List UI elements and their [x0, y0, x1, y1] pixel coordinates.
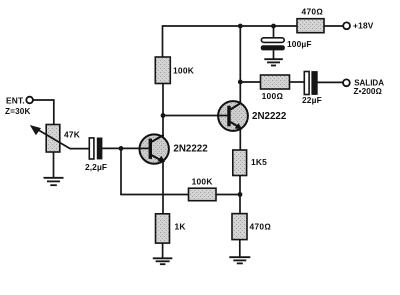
wire potentiometer to ground — [53, 152, 55, 178]
resistor 1K emitter — [156, 214, 186, 243]
resistor 100ohm output — [261, 75, 290, 101]
node output junction — [238, 80, 243, 85]
node emitter feedback junction — [238, 192, 243, 197]
resistor 100K feedback — [189, 176, 217, 200]
svg-text:100µF: 100µF — [287, 39, 312, 49]
wire Q1 base from capacitor — [102, 147, 149, 149]
wire top supply rail — [163, 25, 298, 27]
svg-text:22µF: 22µF — [302, 95, 322, 105]
svg-text:ENT.: ENT. — [6, 95, 25, 105]
wire 1K5 to emitter node — [239, 176, 241, 214]
wire feedback left vertical — [120, 148, 122, 195]
svg-text:2N2222: 2N2222 — [173, 144, 208, 155]
transistor Q1 2N2222 — [140, 134, 209, 163]
capacitor C3 22uF — [302, 72, 322, 106]
wire rail down to 100uF — [273, 26, 275, 38]
terminal ENT input — [5, 95, 33, 116]
wire ENT terminal to potentiometer — [33, 100, 54, 125]
svg-text:2N2222: 2N2222 — [252, 111, 287, 122]
ground under 100uF — [264, 59, 283, 65]
node rail 100uF junction — [271, 24, 276, 29]
svg-text:1K: 1K — [175, 221, 186, 231]
resistor 470ohm emitter — [232, 214, 271, 240]
svg-text:47K: 47K — [64, 130, 80, 140]
ground under potentiometer — [44, 178, 64, 185]
svg-text:Z=30K: Z=30K — [5, 107, 31, 116]
wire 1K to ground — [162, 243, 164, 258]
svg-text:470Ω: 470Ω — [302, 7, 324, 17]
svg-text:100K: 100K — [173, 66, 194, 76]
wire output node to 100ohm — [240, 81, 260, 83]
resistor 470ohm supply filter — [297, 7, 324, 33]
terminal SALIDA output — [343, 79, 384, 96]
svg-text:1K5: 1K5 — [251, 157, 267, 167]
wire rail down to 100K top — [162, 25, 164, 57]
svg-text:2,2µF: 2,2µF — [85, 162, 107, 172]
svg-text:100K: 100K — [192, 176, 213, 186]
node rail collector junction — [238, 24, 243, 29]
transistor Q2 2N2222 — [218, 101, 287, 131]
wire feedback horizontal right — [216, 194, 240, 196]
terminal +18V — [343, 21, 374, 31]
wire Q1 emitter to 1K — [162, 161, 164, 214]
node base Q2 junction — [161, 113, 166, 118]
node base Q1 junction — [119, 146, 124, 151]
wire feedback horizontal left — [120, 194, 188, 196]
wire 100ohm to 22uF — [290, 81, 305, 83]
svg-text:470Ω: 470Ω — [250, 221, 272, 231]
wire 470ohm to +18V terminal — [324, 25, 343, 27]
ground under 470ohm — [229, 257, 250, 263]
wire wiper to 2.2uF capacitor — [70, 148, 89, 150]
resistor R1 100K collector load — [155, 57, 194, 84]
wire 100K bottom to Q1 collector — [162, 84, 164, 138]
wire 470ohm bottom to ground — [239, 240, 241, 258]
svg-text:+18V: +18V — [353, 21, 374, 31]
wire Q2 collector vertical — [239, 26, 241, 103]
wire Q2 emitter to 1K5 — [239, 129, 241, 150]
capacitor C1 2.2uF — [85, 138, 107, 172]
capacitor C2 100uF — [261, 38, 312, 51]
wire 22uF to SALIDA terminal — [317, 81, 343, 83]
resistor 1K5 — [233, 150, 267, 176]
potentiometer 47K — [30, 125, 80, 153]
ground under 1K — [153, 258, 173, 264]
wire 100uF to ground — [273, 50, 275, 59]
svg-text:100Ω: 100Ω — [262, 91, 284, 101]
svg-text:Z•200Ω: Z•200Ω — [354, 87, 382, 96]
wire Q2 base — [163, 115, 228, 117]
